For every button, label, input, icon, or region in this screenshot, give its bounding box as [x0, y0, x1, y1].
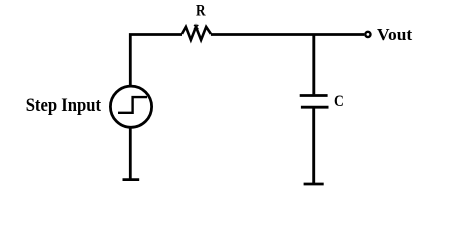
capacitor C top plate: [300, 94, 328, 97]
node A: anchor mark on resistor middle peak: [194, 25, 198, 29]
step waveform symbol inside source: [118, 97, 147, 113]
svg-text:C: C: [334, 93, 344, 110]
ground (left): [123, 178, 140, 181]
wire: source to left ground: [129, 128, 132, 179]
svg-text:Vout: Vout: [377, 25, 413, 44]
step input source circle: [110, 86, 151, 127]
ground (right): [304, 183, 324, 186]
capacitor C bottom plate: [301, 106, 329, 109]
resistor R: [182, 27, 211, 40]
wire: resistor to Vout terminal: [211, 33, 364, 36]
terminal Vout: [365, 32, 370, 37]
svg-text:Step Input: Step Input: [26, 95, 102, 116]
wire: left vertical + top horizontal to resistor: [130, 35, 182, 86]
wire: capacitor to right ground: [312, 109, 315, 184]
svg-text:R: R: [196, 2, 206, 19]
node: junction to capacitor branch: [312, 35, 315, 94]
